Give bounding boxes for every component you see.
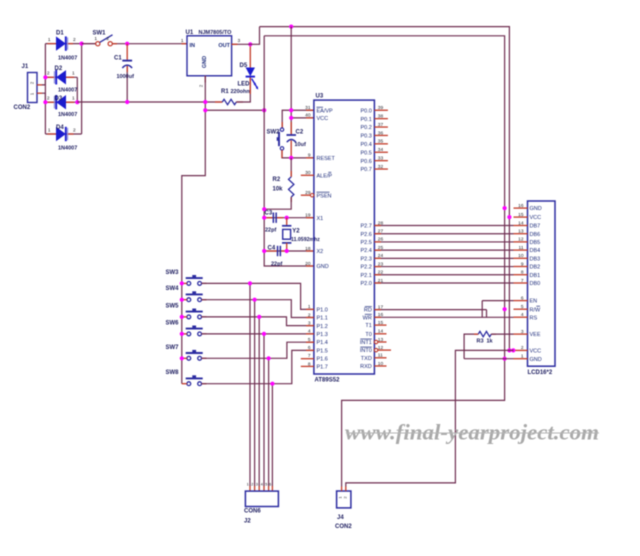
wire P2 data bus to LCD DB7..DB0 [374,226,513,283]
switch SW7 [166,345,207,360]
svg-text:2: 2 [73,37,76,43]
wire RD to LCD EN [374,301,513,318]
svg-text:DB0: DB0 [530,281,541,287]
svg-text:SW5: SW5 [166,303,180,309]
svg-text:NJM7805/TO: NJM7805/TO [199,30,233,36]
svg-text:1: 1 [72,71,75,77]
switch SW1 [93,31,113,46]
svg-text:C1: C1 [114,56,122,62]
wire R2 bottom to GND riser [264,197,291,209]
junction bus SW6 [180,332,184,336]
wire SW8 to P1.5 [202,350,314,383]
switch SW3 [166,270,207,285]
svg-text:VCC: VCC [530,215,542,221]
svg-text:D2: D2 [55,66,63,72]
svg-text:J2: J2 [244,519,251,525]
svg-text:1N4007: 1N4007 [58,88,77,94]
wire keypad row 4 to CON6 pin 4 [263,334,265,491]
svg-text:X2: X2 [317,249,324,255]
diode D3 1N4007 [47,95,77,118]
junction LED top on OUT wire [248,42,252,46]
wire GND rail2 [205,109,264,111]
svg-text:1: 1 [94,36,97,42]
svg-text:DB4: DB4 [530,248,541,254]
svg-text:ALE/P: ALE/P [317,173,333,179]
svg-text:22pf: 22pf [271,262,282,268]
svg-text:WR: WR [363,315,372,321]
svg-text:VEE: VEE [530,332,541,338]
svg-text:D4: D4 [56,125,64,131]
wire SW4 to P1.1 [202,300,314,318]
junction C1 bottom [125,100,129,104]
svg-text:R2: R2 [273,177,281,183]
wire keypad row 5 to CON6 pin 5 [268,358,270,491]
wire keypad row 2 to CON6 pin 2 [254,300,256,491]
svg-text:TXD: TXD [361,356,372,362]
wire VCC vertical to EA/VCC pins and C2 [290,27,292,135]
svg-text:P2.7: P2.7 [360,224,371,230]
junction R2 return on GND riser [262,207,266,211]
resistor R3 contrast [464,331,513,358]
svg-text:220ohm: 220ohm [231,89,252,95]
svg-text:P2.1: P2.1 [360,273,371,279]
junction row SW5 tap [257,315,261,319]
watermark [345,420,599,445]
svg-text:Y2: Y2 [292,229,300,235]
svg-text:RXD: RXD [360,364,372,370]
svg-text:P0.5: P0.5 [360,150,371,156]
svg-text:DB6: DB6 [530,232,541,238]
junction row SW4 tap [253,298,257,302]
junction EA line VCC riser [289,108,293,112]
wire keypad row 6 to CON6 pin 6 [271,384,273,491]
wire VCC top rail [260,27,510,351]
svg-text:31: 31 [305,105,311,111]
wire keypad row 3 to CON6 pin 3 [258,317,260,491]
svg-text:CON6: CON6 [244,509,261,515]
junction row SW8 tap [270,382,274,386]
svg-text:LED: LED [238,82,251,88]
svg-text:P1.4: P1.4 [317,340,328,346]
capacitor C2 10uf [287,122,306,158]
svg-text:P2.3: P2.3 [360,256,371,262]
wire switch common bus [181,283,183,383]
capacitor C3 22pf [265,211,277,234]
svg-text:T1: T1 [365,323,371,329]
svg-text:D5: D5 [240,63,248,69]
svg-text:R3: R3 [477,339,484,345]
wire U1 GND pin down to rails and switch feed [182,76,206,284]
svg-text:P0.7: P0.7 [360,167,371,173]
diode D4 1N4007 [48,125,77,152]
svg-text:CON2: CON2 [335,524,352,530]
junction LCD VCC pin2 a [507,348,511,352]
svg-text:P1.6: P1.6 [317,357,328,363]
U3 PSEN pin29 stub with bubble [301,194,314,197]
wire J1 pin2 to bridge [42,77,45,85]
connector J4 CON2 [335,487,352,531]
svg-text:P1.3: P1.3 [317,332,328,338]
wire GND riser to crystal area [264,36,314,266]
junction LCD R/W grounded [503,307,507,311]
svg-text:P0.6: P0.6 [360,159,371,165]
wire WR to LCD RS [374,316,513,318]
U3 P1.7 stub [301,365,314,367]
svg-text:DB2: DB2 [530,265,541,271]
connector CON6 J2 [244,481,278,524]
svg-text:SW2: SW2 [267,130,281,136]
svg-text:J4: J4 [337,515,344,521]
junction bus SW3 [180,281,184,285]
svg-text:1N4007: 1N4007 [58,112,77,118]
svg-text:SW4: SW4 [166,286,180,292]
svg-text:1: 1 [181,38,184,44]
U3 lower right stubs T1 T0 TXD RXD [374,325,386,366]
wire SW7 to P1.4 [202,342,314,358]
svg-text:U1: U1 [186,30,194,36]
U3 right pin names and numbers [360,105,384,370]
diode D1 1N4007 [48,31,77,62]
junction D1 right [80,42,84,46]
svg-text:DB5: DB5 [530,240,541,246]
junction bus SW5 [180,315,184,319]
svg-text:SW6: SW6 [166,320,180,326]
svg-text:P0.1: P0.1 [360,117,371,123]
svg-text:P1.5: P1.5 [317,348,328,354]
wire keypad row 1 to CON6 pin 1 [249,283,251,491]
svg-text:GND: GND [317,264,329,270]
svg-text:J1: J1 [22,64,29,70]
svg-text:2: 2 [73,127,76,133]
junction LCD VCC pin2 b [511,348,515,352]
svg-text:2: 2 [47,71,50,77]
junction LCD GND pin1 [503,357,507,361]
wire SW2 bottom to RESET [282,150,314,158]
svg-text:SW1: SW1 [93,31,107,37]
svg-text:DB1: DB1 [530,273,541,279]
junction GND rail start [75,100,79,104]
regulator U1 NJM7805/TO [181,30,241,87]
wire bridge left bus [44,44,46,134]
U3 P1.6 stub [301,358,314,360]
svg-text:20: 20 [305,261,311,267]
wire SW5 to P1.2 [202,317,314,326]
svg-text:1: 1 [48,127,51,133]
svg-text:GND: GND [202,56,208,68]
svg-text:18: 18 [305,246,311,252]
svg-text:2: 2 [47,96,50,102]
svg-text:11.0592mhz: 11.0592mhz [291,237,320,243]
wire SW1 to U1 IN [112,43,187,45]
svg-text:R/W: R/W [530,307,542,313]
svg-text:P0.4: P0.4 [360,142,371,148]
junction X2 crystal [285,249,289,253]
svg-text:LCD16*2: LCD16*2 [528,370,553,376]
svg-text:P1.0: P1.0 [317,308,328,314]
wire GND rail (bridge - C1 - U1 - R1) [77,101,222,103]
svg-text:10k: 10k [273,187,284,193]
svg-text:P0.3: P0.3 [360,134,371,140]
svg-text:INT1: INT1 [360,340,372,346]
junction bridge left D2 [43,75,47,79]
connector J1 [14,64,43,111]
svg-text:T0: T0 [365,332,371,338]
junction U1 GND on rail [203,100,207,104]
junction row SW6 tap [262,332,266,336]
svg-text:www.final-yearproject.com: www.final-yearproject.com [345,420,599,445]
junction X1 GND riser [262,216,266,220]
wire EA/VP pin31 with SW2 feed corner [282,110,314,128]
svg-text:SW8: SW8 [166,370,180,376]
wire bridge right vertical D2-D3 [76,77,78,102]
svg-text:OUT: OUT [218,43,230,49]
LCD pin names numbers and stubs [514,203,542,363]
wire X2 line [264,250,314,252]
svg-text:P0.0: P0.0 [360,108,371,114]
wire X1 line [264,217,314,219]
svg-text:P0.2: P0.2 [360,125,371,131]
svg-text:C3: C3 [265,211,273,217]
junction RESET node [289,156,293,160]
svg-text:D1: D1 [56,31,64,37]
svg-text:RESET: RESET [317,156,336,162]
svg-text:C4: C4 [268,246,276,252]
svg-text:P1.1: P1.1 [317,316,328,322]
U3 ALE pin30 stub [301,174,314,176]
wire LCD GND pin1 line [464,358,513,360]
junction X1 crystal [285,216,289,220]
svg-text:X1: X1 [317,216,324,222]
wire D1 anode line [45,43,95,45]
svg-text:3: 3 [238,38,241,44]
wire R1 to LED [236,77,250,102]
svg-text:GND: GND [530,357,542,363]
junction bus SW4 [180,298,184,302]
svg-text:INT0: INT0 [360,348,372,354]
svg-text:1N4007: 1N4007 [58,56,77,62]
svg-text:1k: 1k [487,339,494,345]
svg-text:EN: EN [530,299,538,305]
junction X2 GND riser [262,249,266,253]
svg-text:P2.6: P2.6 [360,232,371,238]
svg-text:P1.7: P1.7 [317,365,328,371]
svg-text:9: 9 [308,153,311,159]
svg-text:DB3: DB3 [530,256,541,262]
svg-text:19: 19 [305,213,311,219]
svg-text:2: 2 [106,36,109,42]
svg-text:D3: D3 [55,96,63,102]
svg-text:CON2: CON2 [14,105,31,111]
U3 P0 stubs [374,110,388,169]
svg-text:C2: C2 [296,130,304,136]
wire VCC pin40 [291,117,314,119]
svg-text:P2.2: P2.2 [360,265,371,271]
svg-text:AT89S52: AT89S52 [315,378,341,384]
wire D4 line [45,133,81,135]
wire SW6 to P1.3 [202,333,314,335]
svg-text:22pf: 22pf [265,228,276,234]
junction row SW3 tap [248,281,252,285]
junction C1 top [125,42,129,46]
svg-text:GND: GND [530,206,542,212]
junction LCD GND pin16 [503,206,507,210]
svg-text:EA/VP: EA/VP [317,108,334,114]
switch SW5 [166,303,207,318]
wire SW3 to P1.0 [202,283,314,309]
svg-text:P2.4: P2.4 [360,248,371,254]
wire D1 to SW1 [82,43,96,45]
switch SW2 (reset) [267,128,284,150]
junction LCD VCC pin15 [507,215,511,219]
resistor R1 220ohm [215,89,251,105]
svg-text:40: 40 [305,113,311,119]
LCD16*2 connector box [528,201,556,376]
svg-text:VCC: VCC [530,349,542,355]
U3 INT1 stub with bubble [374,340,386,343]
svg-text:U3: U3 [316,94,324,100]
LED D5 [238,44,259,89]
svg-text:P2.0: P2.0 [360,281,371,287]
svg-text:DB7: DB7 [530,224,541,230]
capacitor C4 22pf [268,246,283,268]
wire GND top rail [264,36,504,487]
U3 INT0 stub with bubble [374,348,391,351]
diode D2 1N4007 [47,66,77,94]
junction VCC pin40 [289,116,293,120]
wire U1 OUT to VCC rail riser [232,27,260,45]
svg-text:RD: RD [364,308,372,314]
svg-text:IN: IN [190,43,196,49]
wire LCD VCC pin2 to J4 [346,350,514,486]
junction row SW7 tap [267,356,271,360]
svg-text:10uf: 10uf [295,142,306,148]
svg-text:1000uf: 1000uf [117,74,135,80]
svg-text:PSEN: PSEN [317,193,332,199]
svg-text:1N4007: 1N4007 [58,146,77,152]
capacitor C1 1000uf [114,44,134,102]
junction bus SW7 [180,356,184,360]
svg-text:R1: R1 [221,89,229,95]
wire D3 line [45,101,77,103]
junction rail2 right riser [262,108,266,112]
junction VCC riser to MCU [289,25,293,29]
wire D2 line [45,76,77,78]
junction rail2 left [203,108,207,112]
switch SW4 [166,286,207,301]
svg-text:RS: RS [530,315,538,321]
svg-text:VCC: VCC [317,116,329,122]
op-amp U3 AT89S52 box [314,94,375,384]
svg-text:SW7: SW7 [166,345,180,351]
svg-text:1: 1 [48,37,51,43]
crystal Y2 11.0592mhz [282,218,320,251]
wire bridge right vertical D1-D4 [81,44,83,134]
svg-text:SW3: SW3 [166,270,180,276]
svg-text:1: 1 [72,96,75,102]
svg-text:P2.5: P2.5 [360,240,371,246]
U3 left pin names and numbers [305,105,335,371]
wire J1 pin1 to bridge [42,93,45,102]
svg-text:P1.2: P1.2 [317,324,328,330]
junction bridge left D3 [43,100,47,104]
resistor R2 10k [273,158,294,202]
switch SW8 [166,370,207,385]
switch SW6 [166,320,207,335]
